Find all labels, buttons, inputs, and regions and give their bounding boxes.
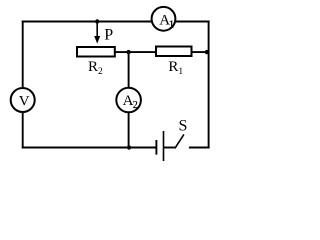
svg-text:R2: R2	[88, 59, 103, 77]
wire A2 lower branch	[128, 112, 130, 148]
wire left vertical lower	[22, 112, 24, 148]
wire left vertical upper	[22, 21, 24, 89]
wire R1 to right rail	[192, 51, 209, 53]
wire top right segment	[176, 21, 210, 23]
wire R2 to R1	[116, 51, 157, 53]
switch S lever	[175, 134, 184, 148]
node junction on top wire	[95, 19, 99, 23]
potentiometer wiper arrow	[94, 22, 100, 44]
svg-text:1: 1	[169, 19, 174, 30]
svg-text:V: V	[19, 94, 30, 110]
resistor R2	[77, 47, 115, 57]
wire bottom left segment	[22, 147, 156, 149]
battery cell	[156, 131, 163, 161]
svg-text:S: S	[179, 118, 188, 135]
wire battery to switch	[164, 147, 175, 149]
svg-text:2: 2	[133, 100, 138, 111]
wire right vertical	[208, 21, 210, 149]
node junction middle	[126, 50, 130, 54]
svg-text:P: P	[104, 27, 113, 44]
ammeter A2	[116, 88, 141, 113]
voltmeter V	[11, 88, 35, 112]
node junction bottom	[127, 145, 131, 149]
wire top left segment	[22, 21, 152, 23]
resistor R1	[156, 47, 192, 57]
wire A2 upper branch	[128, 52, 130, 88]
ammeter A1	[152, 7, 176, 31]
svg-text:R1: R1	[168, 59, 183, 77]
wire bottom right segment	[189, 147, 210, 149]
node junction right	[205, 50, 209, 54]
